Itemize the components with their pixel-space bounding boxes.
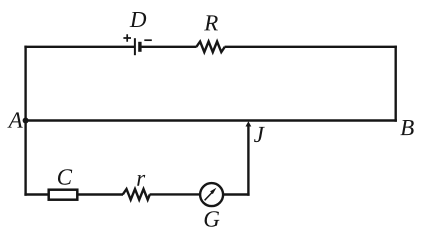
resistor R [196, 42, 224, 53]
wire R to top-right corner [225, 46, 397, 48]
wire battery to resistor R [140, 46, 196, 48]
wire box C to resistor r [78, 193, 124, 195]
wire top-left segment to battery [24, 46, 134, 48]
wire J vertical [247, 126, 249, 196]
battery minus sign [144, 39, 152, 41]
galvanometer needle arrowhead [210, 188, 216, 194]
resistance box C [49, 190, 78, 200]
galvanometer G circle [200, 183, 223, 206]
label B [400, 120, 413, 135]
battery D right plate (short thick, -) [138, 42, 141, 52]
label r [137, 175, 145, 186]
battery D left plate (long, +) [134, 38, 136, 55]
battery plus sign [123, 34, 131, 42]
label C [58, 169, 72, 184]
label A [7, 112, 22, 127]
label J [254, 127, 265, 142]
wire r to galvanometer [150, 193, 201, 195]
wire left vertical A-branch [24, 46, 26, 196]
node A junction dot [23, 118, 29, 124]
label D [130, 12, 147, 27]
wire A to B [24, 119, 397, 121]
label R [204, 15, 218, 30]
wire right vertical [395, 46, 397, 122]
galvanometer needle [205, 192, 213, 200]
label G [205, 211, 220, 226]
wire bottom: A branch to box C [24, 193, 48, 195]
resistor r [123, 189, 150, 200]
jockey arrowhead J [246, 121, 252, 126]
wire galvanometer to J corner [223, 193, 250, 195]
